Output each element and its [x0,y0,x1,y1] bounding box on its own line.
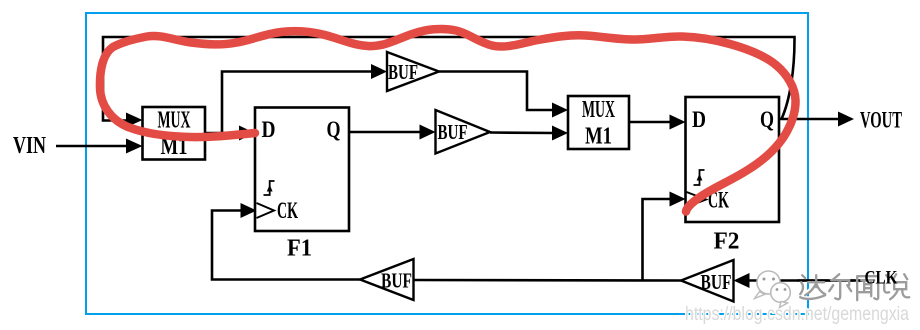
wire CLK segment redrawn over watermark highlight [798,279,862,282]
svg-text:D: D [692,107,706,132]
wire MUX2 output to F2 D [629,121,671,124]
wire F2 Q output to VOUT [779,118,840,121]
svg-text:MUX: MUX [582,97,615,123]
svg-text:https://blog.csdn.net/gemengxi: https://blog.csdn.net/gemengxia [685,304,909,325]
arrow to VOUT [838,112,854,127]
wire CLK input line [748,279,867,282]
flip-flop F2 box [686,97,780,222]
buffer U4 bottom-right BUF triangle [681,260,734,302]
svg-text:D: D [262,117,276,142]
arrow into MUX2 second input [552,126,568,141]
wire junction branch to top BUF [222,72,373,134]
svg-text:Q: Q [327,117,341,142]
svg-text:CLK: CLK [865,269,898,289]
wire F1 Q output to middle BUF [349,131,421,134]
arrow into right BUF from CLK [734,273,750,288]
arrowheads [126,64,854,288]
buffer U3 bottom-left BUF triangle [360,259,414,300]
arrow into MUX M1 top input (feedback) [126,113,143,128]
svg-text:F1: F1 [287,236,312,262]
svg-text:BUF: BUF [388,60,418,84]
wire top BUF output to MUX2 top input [439,72,554,111]
border frame [86,13,808,314]
arrow into middle BUF [420,125,436,140]
F2 clock wedge [687,192,707,207]
mux M1 (left) box [143,107,206,160]
svg-text:BUF: BUF [438,120,468,144]
wire right BUF output to left BUF input [414,279,681,282]
svg-text:CK: CK [277,198,298,223]
watermark wechat icon bubble 2 [771,283,791,308]
red marker annotation loop [100,29,796,212]
wire feedback net from node Q2 to MUX M1 top input [103,37,795,121]
watermark wechat icon bubble 1 [755,271,781,299]
svg-text:Q: Q [760,107,774,132]
svg-text:MUX: MUX [158,108,191,134]
wire MUX M1 output to F1 D [205,132,241,135]
arrow into top BUF [371,64,387,79]
svg-text:BUF: BUF [381,269,412,293]
arrow into F2 D [670,115,686,130]
wire clock branch to F2 CK [643,199,672,281]
arrow into MUX M1 from VIN [126,139,143,154]
arrow into MUX2 top input [552,103,568,118]
mux M1 (second) box [568,96,629,149]
svg-text:BUF: BUF [701,270,732,294]
buffer U1 top BUF triangle [387,52,439,91]
svg-text:F2: F2 [714,229,740,255]
arrow into F1 CK [241,203,257,218]
arrow into F2 CK [670,192,686,207]
wire VIN to MUX M1 input [56,145,128,148]
flip-flop F1 box [255,108,349,232]
buffer U2 middle BUF triangle [436,110,491,154]
svg-text:VOUT: VOUT [860,108,902,133]
wire left BUF output to F1 CK [212,211,360,280]
F2 rising edge symbol [694,170,705,185]
svg-text:VIN: VIN [13,133,46,159]
svg-text:M1: M1 [585,124,612,150]
watermark chinese characters [798,273,909,300]
F1 rising edge symbol [264,181,275,195]
wire middle BUF output to MUX2 second input [490,131,554,134]
F1 clock wedge [257,203,275,218]
arrow into F1 D [239,126,255,141]
